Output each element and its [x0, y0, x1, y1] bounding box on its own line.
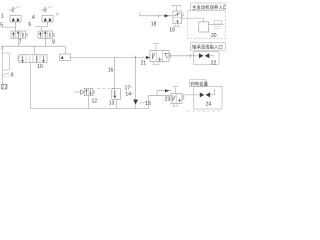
wire 13 drain — [115, 99, 117, 108]
svg-text:15: 15 — [145, 101, 151, 107]
tank 13 — [112, 89, 121, 99]
flow arrow top — [165, 14, 170, 17]
svg-text:17: 17 — [125, 85, 131, 91]
valve 12 — [84, 88, 93, 95]
svg-text:刹车装置: 刹车装置 — [190, 80, 208, 87]
svg-text:主发动机保养入口: 主发动机保养入口 — [192, 4, 226, 11]
regulator arrow R2 — [10, 10, 13, 11]
unit 20 frame — [188, 11, 226, 39]
top branch pipe — [140, 13, 173, 16]
wire H1 to manifold — [33, 46, 35, 55]
svg-text:13: 13 — [109, 100, 115, 106]
unit 24 title box — [190, 80, 207, 87]
svg-text:23: 23 — [165, 96, 171, 102]
svg-text:12: 12 — [92, 98, 98, 104]
wire bus H1 — [2, 46, 66, 49]
svg-text:24: 24 — [206, 102, 212, 108]
svg-text:1: 1 — [1, 14, 4, 20]
svg-text:18: 18 — [151, 22, 157, 28]
flow arrow on L2 — [146, 56, 150, 59]
junction tick top pipe — [158, 14, 160, 18]
svg-text:6: 6 — [28, 22, 31, 28]
wire riser 13 — [114, 58, 116, 89]
unit 20 body — [199, 22, 209, 32]
wire intake B — [35, 26, 48, 28]
valve 12 pilot — [80, 90, 84, 94]
wire bus H2 — [31, 108, 149, 110]
junction box 11 — [65, 46, 67, 54]
svg-text:2: 2 — [12, 7, 15, 13]
junction tick L2 — [135, 56, 137, 59]
valve 19 — [173, 6, 181, 12]
valve 21 — [153, 44, 159, 51]
valve V7 — [11, 31, 26, 39]
svg-text:7: 7 — [19, 39, 22, 45]
svg-text:20: 20 — [211, 33, 217, 39]
svg-text:3: 3 — [44, 7, 47, 13]
bottom branch riser — [148, 96, 150, 109]
muffler — [2, 70, 4, 85]
wire manifold drain V1 — [30, 63, 32, 109]
pipe 23 to unit 24 — [182, 94, 200, 96]
pipe to valve 23 — [149, 95, 172, 97]
unit 22 title box — [191, 43, 226, 51]
hose squiggle 15 — [140, 102, 145, 105]
pipe 19 to unit 20 — [182, 18, 204, 22]
wire feed 12 — [74, 91, 80, 93]
svg-text:21: 21 — [141, 60, 147, 66]
unit 24 frame — [194, 87, 222, 110]
unit 22 frame — [194, 52, 220, 64]
unit 20 title box — [191, 3, 226, 11]
relief 9 body — [2, 46, 4, 53]
coupling 24 — [200, 92, 205, 97]
svg-text:16: 16 — [108, 67, 114, 73]
svg-text:10: 10 — [37, 64, 43, 70]
check valve 15 drop — [135, 58, 137, 100]
svg-text:9: 9 — [11, 72, 14, 78]
wire line L2 — [71, 57, 151, 59]
filter F1 — [10, 16, 21, 23]
svg-text:19: 19 — [169, 28, 175, 34]
relief 9 squiggle — [5, 73, 11, 76]
wire valveB down — [45, 39, 47, 47]
svg-text:8: 8 — [52, 39, 55, 45]
svg-text:14: 14 — [125, 92, 131, 98]
relief 9 dashes — [1, 75, 10, 77]
valve V8 — [38, 31, 53, 39]
wire valveA down — [18, 39, 20, 47]
wire 12 drain — [88, 96, 90, 109]
valve 23 — [173, 87, 179, 94]
filter F2 — [42, 16, 53, 23]
manifold block 10 — [19, 55, 47, 63]
upper pipe arrow 23 — [157, 91, 171, 96]
wire intake A — [2, 27, 16, 31]
regulator arrow R3 — [42, 10, 45, 11]
svg-text:轴承润滑脂入口: 轴承润滑脂入口 — [192, 44, 223, 51]
svg-text:4: 4 — [32, 15, 35, 21]
valve 12 spring — [93, 91, 95, 95]
pipe 21 to unit 22 — [169, 55, 199, 57]
coupling 22 — [199, 53, 204, 58]
svg-text:5: 5 — [0, 23, 3, 29]
svg-text:22: 22 — [211, 60, 217, 66]
pilot dashed line — [97, 87, 114, 89]
stray mark — [57, 13, 58, 15]
